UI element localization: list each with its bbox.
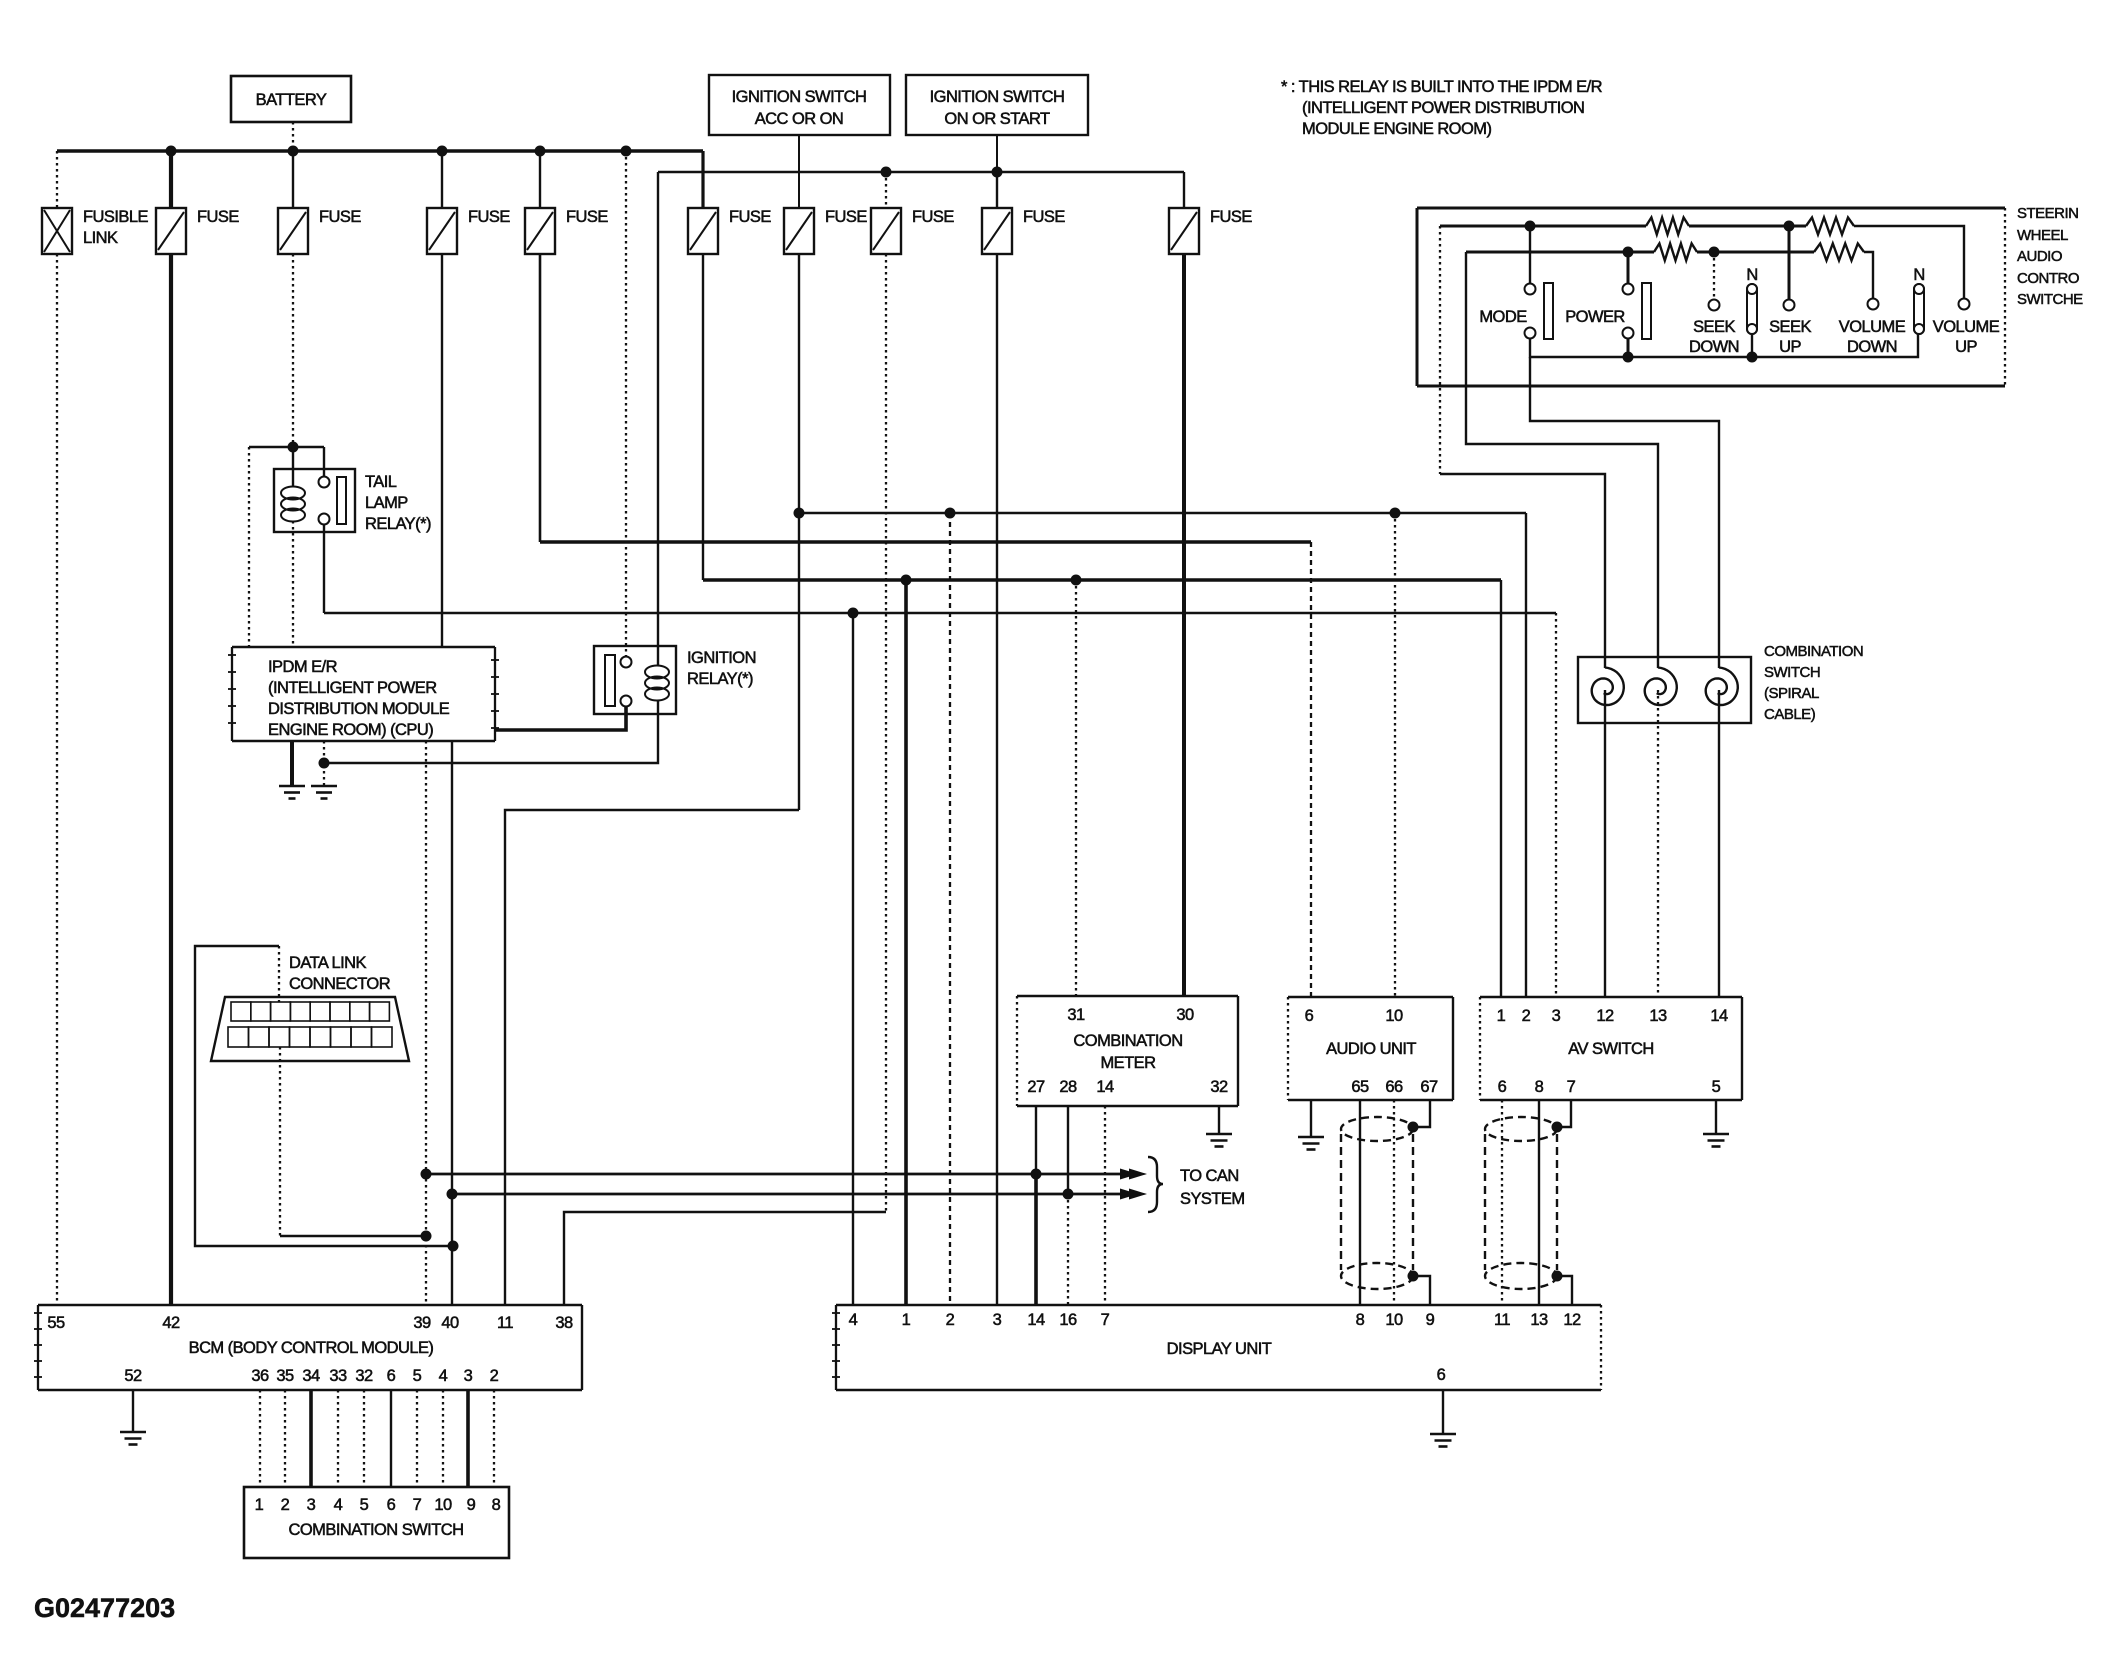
- wire bus to fusible link: [56, 151, 58, 208]
- wire meter 32 ground stem: [1218, 1106, 1220, 1134]
- svg-text:6: 6: [1437, 1366, 1446, 1384]
- wire fuse F1 to BCM pin 42: [169, 254, 173, 1305]
- wire meter 27 to CAN1: [1035, 1106, 1037, 1174]
- wire drop to audio pin 6 (dashed): [1310, 542, 1312, 997]
- svg-text:ON OR START: ON OR START: [944, 110, 1050, 128]
- svg-text:TO CAN: TO CAN: [1180, 1167, 1239, 1185]
- wire ignition bus to fuse F8: [996, 172, 998, 208]
- svg-text:13: 13: [1649, 1007, 1667, 1025]
- svg-text:14: 14: [1027, 1311, 1045, 1329]
- switch VOLUME UP: [1933, 299, 2000, 357]
- svg-text:BCM (BODY CONTROL MODULE): BCM (BODY CONTROL MODULE): [189, 1339, 434, 1357]
- svg-text:10: 10: [1385, 1007, 1403, 1025]
- AV switch box: [1480, 997, 1742, 1100]
- svg-text:2: 2: [281, 1496, 290, 1514]
- wire AV 5 ground stem: [1715, 1100, 1717, 1134]
- svg-text:IGNITION SWITCH: IGNITION SWITCH: [732, 88, 867, 106]
- fuse F9: [1169, 208, 1252, 254]
- wire row2 middle: [1697, 251, 1814, 254]
- wire ignition bus corner into fuse F9: [1183, 172, 1185, 208]
- svg-text:33: 33: [329, 1367, 347, 1385]
- svg-text:FUSE: FUSE: [912, 208, 954, 226]
- wire display 14 riser: [1034, 1174, 1038, 1305]
- battery B1: [231, 76, 351, 122]
- wire BCM ground stem: [132, 1390, 134, 1432]
- svg-text:DISTRIBUTION MODULE: DISTRIBUTION MODULE: [268, 700, 450, 718]
- wire AV 8 to display 13: [1538, 1100, 1540, 1305]
- switch N 2: [1913, 266, 1924, 334]
- wire CAN line 2: [452, 1193, 1132, 1196]
- wire audio 66 to display 10 (dotted): [1393, 1100, 1395, 1305]
- ground audio: [1298, 1137, 1324, 1150]
- svg-text:N: N: [1913, 266, 1924, 284]
- junction tail rail to display pin 4: [848, 608, 859, 619]
- svg-text:38: 38: [555, 1314, 573, 1332]
- svg-text:4: 4: [334, 1496, 343, 1514]
- wire BCM6-6: [390, 1390, 392, 1487]
- svg-text:FUSE: FUSE: [468, 208, 510, 226]
- svg-text:14: 14: [1096, 1078, 1114, 1096]
- junction ACC rail to display 2: [945, 508, 956, 519]
- wire display 16 riser (dotted): [1067, 1194, 1069, 1305]
- svg-text:2: 2: [1522, 1007, 1531, 1025]
- svg-text:12: 12: [1596, 1007, 1614, 1025]
- svg-text:14: 14: [1710, 1007, 1728, 1025]
- svg-text:FUSE: FUSE: [197, 208, 239, 226]
- wire row1 right to volume up: [1854, 226, 1964, 298]
- wire row2 right to volume down: [1864, 252, 1873, 298]
- switch SEEK DOWN: [1689, 300, 1739, 357]
- svg-text:1: 1: [255, 1496, 264, 1514]
- junction rail2 to meter 31: [1071, 575, 1082, 586]
- wire spiral2 to AV pin 13 (dotted): [1657, 690, 1659, 997]
- svg-text:10: 10: [434, 1496, 452, 1514]
- svg-text:52: 52: [124, 1367, 142, 1385]
- wire AV 7 to shield2: [1557, 1100, 1571, 1127]
- wire BCM36-1: [259, 1390, 261, 1487]
- wire relay feed horizontal: [249, 446, 324, 448]
- svg-text:SYSTEM: SYSTEM: [1180, 1190, 1245, 1208]
- svg-text:FUSE: FUSE: [1210, 208, 1252, 226]
- wire BCM2-8: [493, 1390, 495, 1487]
- svg-text:42: 42: [162, 1314, 180, 1332]
- fusible link FL: [42, 208, 148, 254]
- wire feed to relay contact: [323, 447, 325, 477]
- svg-text:TAIL: TAIL: [365, 473, 397, 491]
- svg-text:3: 3: [464, 1367, 473, 1385]
- wire battery bus: [57, 149, 703, 153]
- svg-text:FUSE: FUSE: [1023, 208, 1065, 226]
- ground BCM: [120, 1432, 146, 1445]
- wire power bottom: [1627, 338, 1630, 357]
- wire relay coil to IPDM (dotted): [292, 521, 294, 647]
- junction bus dot 4: [535, 146, 546, 157]
- svg-text:36: 36: [251, 1367, 269, 1385]
- combination switch spiral cable box: [1578, 643, 1863, 723]
- tail lamp relay K1: [274, 469, 431, 533]
- ignition switch ACC box: [709, 75, 890, 135]
- label TO CAN SYSTEM: [1180, 1167, 1245, 1208]
- svg-text:AV SWITCH: AV SWITCH: [1568, 1040, 1654, 1058]
- wire audio ground stem: [1310, 1100, 1312, 1137]
- svg-text:COMBINATION SWITCH: COMBINATION SWITCH: [289, 1521, 464, 1539]
- wire BCM3-9: [466, 1390, 470, 1487]
- svg-text:55: 55: [47, 1314, 65, 1332]
- svg-text:3: 3: [307, 1496, 316, 1514]
- ground AV: [1703, 1134, 1729, 1147]
- svg-text:MODE: MODE: [1479, 308, 1527, 326]
- svg-text:RELAY(*): RELAY(*): [365, 515, 431, 533]
- svg-text:AUDIO UNIT: AUDIO UNIT: [1326, 1040, 1416, 1058]
- wire display ground stem: [1442, 1390, 1444, 1434]
- svg-text:8: 8: [492, 1496, 501, 1514]
- junction rail2 to display 1: [901, 575, 912, 586]
- wire tail rail: [324, 612, 1556, 614]
- junction DLC bottom to CAN-L: [421, 1231, 432, 1242]
- fuse F1: [156, 208, 239, 254]
- svg-text:9: 9: [467, 1496, 476, 1514]
- fuse F3: [427, 208, 510, 254]
- wire ACC rail drop to AV pin 2: [1525, 513, 1527, 997]
- svg-text:30: 30: [1176, 1006, 1194, 1024]
- ground display: [1430, 1434, 1456, 1447]
- wire steering out 3: [1530, 357, 1719, 668]
- wire fuse F4 down to battery rail: [539, 254, 542, 542]
- svg-text:FUSE: FUSE: [729, 208, 771, 226]
- junction CAN2 at BCM40 riser: [447, 1189, 458, 1200]
- IPDM E/R module: [228, 647, 499, 741]
- svg-text:AUDIO: AUDIO: [2017, 248, 2062, 265]
- svg-text:12: 12: [1563, 1311, 1581, 1329]
- junction ignition bus dot A: [881, 167, 892, 178]
- wire rail2 drop to AV pin 1: [1500, 580, 1502, 997]
- svg-text:40: 40: [441, 1314, 459, 1332]
- spiral contact 2: [1645, 668, 1677, 706]
- resistor R4: [1814, 244, 1864, 261]
- wire relay coil return: [324, 700, 658, 763]
- wire spiral3 to AV pin 14: [1718, 690, 1720, 997]
- svg-text:6: 6: [387, 1496, 396, 1514]
- arrow CAN2: [1120, 1189, 1147, 1200]
- arrow CAN1: [1120, 1169, 1147, 1180]
- svg-text:3: 3: [993, 1311, 1002, 1329]
- wire ignition bus to relay coil: [657, 172, 659, 665]
- svg-text:31: 31: [1067, 1006, 1085, 1024]
- wire fuse F5 down to rail2: [702, 254, 704, 580]
- svg-text:9: 9: [1426, 1311, 1435, 1329]
- svg-text:POWER: POWER: [1565, 308, 1625, 326]
- junction common bus power: [1623, 352, 1634, 363]
- wire bus to fuse F3: [441, 151, 443, 208]
- ignition relay K2: [594, 646, 756, 714]
- wire fuse F9 to combination meter pin 30: [1182, 254, 1186, 996]
- junction shield1 top: [1408, 1122, 1419, 1133]
- svg-text:IPDM E/R: IPDM E/R: [268, 658, 338, 676]
- wire bus to fuse F4: [539, 151, 541, 208]
- svg-text:IGNITION: IGNITION: [687, 649, 756, 667]
- wire meter 28 to CAN2: [1067, 1106, 1069, 1194]
- wire switch row1: [1440, 225, 1646, 228]
- wire spiral1 to AV pin 12: [1604, 690, 1606, 997]
- svg-text:65: 65: [1351, 1078, 1369, 1096]
- resistor R3: [1654, 244, 1697, 261]
- svg-text:LAMP: LAMP: [365, 494, 408, 512]
- svg-text:DOWN: DOWN: [1847, 338, 1897, 356]
- junction CAN1 at BCM39 riser: [421, 1169, 432, 1180]
- wire feed to IPDM (left dotted): [248, 447, 250, 647]
- wire battery rail 2 (fuse F5): [703, 578, 1501, 582]
- svg-text:MODULE ENGINE ROOM): MODULE ENGINE ROOM): [1302, 120, 1491, 138]
- svg-text:2: 2: [946, 1311, 955, 1329]
- svg-text:SWITCH: SWITCH: [1764, 664, 1820, 681]
- switch N 1: [1746, 266, 1757, 334]
- wire switch common bus: [1530, 334, 1918, 357]
- wire to audio pin 10 (dotted): [1394, 513, 1396, 997]
- wire shield2 to display 12: [1557, 1276, 1572, 1305]
- fuse F4: [525, 208, 608, 254]
- svg-text:* : THIS RELAY IS BUILT INTO T: * : THIS RELAY IS BUILT INTO THE IPDM E/…: [1281, 78, 1603, 96]
- wire AV 6 to display 11 (dotted): [1501, 1100, 1503, 1305]
- svg-text:CONTRO: CONTRO: [2017, 270, 2079, 287]
- switch MODE: [1479, 283, 1553, 339]
- svg-text:CONNECTOR: CONNECTOR: [289, 975, 391, 993]
- junction shield2 top: [1552, 1122, 1563, 1133]
- junction shield1 bottom: [1408, 1271, 1419, 1282]
- spiral contact 1: [1592, 668, 1624, 706]
- svg-text:N: N: [1746, 266, 1757, 284]
- junction bus dot 1: [166, 146, 177, 157]
- wire seek down riser (dotted): [1713, 252, 1715, 299]
- wire to display pin 4: [852, 613, 854, 1305]
- wire CAN-L from IPDM (dotted) to BCM pin 39: [425, 741, 427, 1305]
- svg-text:UP: UP: [1955, 338, 1977, 356]
- combination meter box: [1017, 996, 1238, 1106]
- svg-text:METER: METER: [1100, 1054, 1156, 1072]
- junction row2 seek down: [1709, 247, 1720, 258]
- wire N1 to common bus: [1751, 334, 1753, 357]
- ground IPDM 1: [279, 786, 305, 799]
- wire ACC switch stem: [798, 135, 800, 208]
- junction DLC top to CAN-H: [448, 1241, 459, 1252]
- svg-text:FUSIBLE: FUSIBLE: [83, 208, 148, 226]
- ignition switch ON/START box: [906, 75, 1088, 135]
- wire BCM35-2: [284, 1390, 286, 1487]
- combination switch box: [244, 1487, 509, 1558]
- svg-text:11: 11: [1494, 1311, 1510, 1329]
- display unit box: [832, 1305, 1601, 1390]
- svg-text:32: 32: [355, 1367, 373, 1385]
- svg-text:66: 66: [1385, 1078, 1403, 1096]
- fuse F8: [982, 208, 1065, 254]
- wire fuse F3 to IPDM: [441, 254, 443, 647]
- wire audio 65 to display 8: [1359, 1100, 1361, 1305]
- wire IPDM ground 2 (with relay coil return): [323, 741, 325, 786]
- wire fuse F2 to tail lamp relay node: [292, 254, 294, 447]
- junction row2 power: [1623, 247, 1634, 258]
- wire BCM32-5: [363, 1390, 365, 1487]
- wire power switch riser: [1627, 252, 1630, 283]
- note asterisk text: [1281, 78, 1603, 138]
- svg-text:(SPIRAL: (SPIRAL: [1764, 685, 1819, 702]
- wire DLC bottom pin (dotted): [279, 1047, 281, 1236]
- wire ON/START switch stem: [996, 135, 998, 172]
- wire jog to BCM pin 38: [564, 1212, 886, 1305]
- wire BCM33-4: [337, 1390, 339, 1487]
- svg-text:2: 2: [490, 1367, 499, 1385]
- wire battery bus to ignition relay contact (dotted): [625, 151, 627, 657]
- svg-text:IGNITION SWITCH: IGNITION SWITCH: [930, 88, 1065, 106]
- svg-text:(INTELLIGENT POWER DISTRIBUTIO: (INTELLIGENT POWER DISTRIBUTION: [1302, 99, 1584, 117]
- fuse F2: [278, 208, 361, 254]
- wire fusible link to BCM pin 55: [56, 254, 58, 1305]
- svg-text:DATA LINK: DATA LINK: [289, 954, 367, 972]
- svg-text:G02477203: G02477203: [34, 1593, 175, 1623]
- svg-text:UP: UP: [1779, 338, 1801, 356]
- svg-text:BATTERY: BATTERY: [256, 91, 327, 109]
- fuse F7: [871, 208, 954, 254]
- audio unit box: [1288, 997, 1453, 1100]
- wire seek up riser: [1788, 226, 1791, 299]
- svg-text:CABLE): CABLE): [1764, 706, 1816, 723]
- wire feed to relay coil: [292, 447, 294, 487]
- svg-text:5: 5: [413, 1367, 422, 1385]
- junction row1 mode: [1525, 221, 1536, 232]
- wire to display pin 1: [904, 580, 908, 1305]
- svg-text:4: 4: [439, 1367, 448, 1385]
- svg-text:ENGINE ROOM) (CPU): ENGINE ROOM) (CPU): [268, 721, 433, 739]
- svg-text:5: 5: [1712, 1078, 1721, 1096]
- spiral contact 3: [1706, 668, 1738, 706]
- wire tail rail drop to AV pin 3 (dotted): [1555, 613, 1557, 997]
- wire ignition bus to fuse F7: [885, 172, 887, 208]
- fuse F5: [688, 208, 771, 254]
- svg-text:STEERIN: STEERIN: [2017, 205, 2079, 222]
- wire to display pin 2 (dashed): [949, 513, 951, 1305]
- svg-text:39: 39: [413, 1314, 431, 1332]
- junction bus dot 5: [621, 146, 632, 157]
- svg-text:10: 10: [1385, 1311, 1403, 1329]
- svg-text:7: 7: [413, 1496, 422, 1514]
- wire bus corner into fuse F5: [701, 151, 704, 208]
- switch SEEK UP: [1769, 300, 1811, 357]
- wire bus to fuse F1: [169, 151, 173, 208]
- resistor R2: [1806, 218, 1854, 235]
- wire steering out 1 bend to spiral 1: [1440, 474, 1605, 668]
- svg-text:35: 35: [276, 1367, 294, 1385]
- svg-text:3: 3: [1552, 1007, 1561, 1025]
- svg-text:FUSE: FUSE: [825, 208, 867, 226]
- brace TO CAN: [1148, 1157, 1163, 1212]
- wire fuse F6 to ACC rail junction: [798, 254, 800, 810]
- svg-text:VOLUME: VOLUME: [1933, 318, 2000, 336]
- svg-text:SEEK: SEEK: [1693, 318, 1735, 336]
- junction ACC rail to audio 10: [1390, 508, 1401, 519]
- wire meter 14 to display 7 (dotted): [1104, 1106, 1106, 1305]
- svg-text:VOLUME: VOLUME: [1839, 318, 1906, 336]
- wire bus to fuse F2: [292, 151, 294, 208]
- data link connector DLC: [211, 954, 409, 1061]
- wire CAN-H from IPDM to BCM pin 40: [451, 741, 453, 1305]
- wire fuse F8 to display pin 3: [996, 254, 998, 1305]
- wire BCM5-7: [416, 1390, 418, 1487]
- resistor R1: [1646, 218, 1689, 235]
- wire fuse F7 down (dotted) to BCM 38 jog: [885, 254, 887, 1212]
- wire row1 middle: [1689, 225, 1806, 228]
- svg-text:32: 32: [1210, 1078, 1228, 1096]
- svg-text:1: 1: [902, 1311, 911, 1329]
- switch POWER: [1565, 283, 1651, 339]
- wire BCM34-3: [309, 1390, 313, 1487]
- svg-text:FUSE: FUSE: [319, 208, 361, 226]
- junction common bus N1: [1747, 352, 1758, 363]
- ground IPDM 2: [311, 786, 337, 799]
- svg-text:SEEK: SEEK: [1769, 318, 1811, 336]
- svg-text:13: 13: [1530, 1311, 1548, 1329]
- wire mode switch riser: [1529, 226, 1531, 283]
- wire ACC rail: [799, 512, 1526, 514]
- wire shield1 to display 9: [1413, 1276, 1430, 1305]
- steering wheel audio control switches box: [1417, 205, 2083, 386]
- svg-text:(INTELLIGENT POWER: (INTELLIGENT POWER: [268, 679, 437, 697]
- svg-text:DOWN: DOWN: [1689, 338, 1739, 356]
- BCM body control module box: [34, 1305, 582, 1390]
- ground meter: [1206, 1134, 1232, 1147]
- svg-text:6: 6: [1498, 1078, 1507, 1096]
- svg-text:FUSE: FUSE: [566, 208, 608, 226]
- svg-text:DISPLAY UNIT: DISPLAY UNIT: [1167, 1340, 1272, 1358]
- wire audio 67 to shield1: [1413, 1100, 1430, 1127]
- wire row2: [1466, 251, 1654, 254]
- svg-text:4: 4: [849, 1311, 858, 1329]
- svg-text:27: 27: [1027, 1078, 1045, 1096]
- svg-text:6: 6: [1305, 1007, 1314, 1025]
- junction bus dot 3: [437, 146, 448, 157]
- junction ACC rail at fuse F6: [794, 508, 805, 519]
- fuse F6: [784, 208, 867, 254]
- junction bus dot 2: [288, 146, 299, 157]
- junction coil return: [319, 758, 330, 769]
- svg-text:LINK: LINK: [83, 229, 118, 247]
- svg-text:5: 5: [360, 1496, 369, 1514]
- junction CAN2 meter28/display16: [1063, 1189, 1074, 1200]
- wire DLC bottom to CAN-L: [280, 1235, 426, 1237]
- svg-text:7: 7: [1101, 1311, 1110, 1329]
- svg-text:67: 67: [1420, 1078, 1438, 1096]
- shield S1 (shielded cable audio): [1341, 1117, 1413, 1289]
- svg-text:7: 7: [1567, 1078, 1576, 1096]
- junction row1 seek up: [1784, 221, 1795, 232]
- svg-text:28: 28: [1059, 1078, 1077, 1096]
- svg-text:6: 6: [387, 1367, 396, 1385]
- svg-text:COMBINATION: COMBINATION: [1764, 643, 1863, 660]
- wire battery stem: [292, 122, 294, 151]
- wire ignition bus: [658, 171, 1184, 173]
- wire DLC top detour: [195, 946, 453, 1246]
- svg-text:34: 34: [302, 1367, 320, 1385]
- wire DLC top pin (dotted): [278, 946, 280, 1002]
- wire BCM4-10: [442, 1390, 444, 1487]
- switch VOLUME DOWN: [1839, 299, 1906, 357]
- shield S2 (shielded cable AV): [1485, 1117, 1557, 1289]
- wire battery rail (fuse F4): [540, 540, 1311, 544]
- wire IPDM to ignition relay contact: [495, 706, 626, 730]
- wire CAN line 1: [426, 1173, 1132, 1176]
- svg-text:16: 16: [1059, 1311, 1077, 1329]
- wire to meter pin 31 (dotted): [1075, 580, 1077, 996]
- svg-text:8: 8: [1356, 1311, 1365, 1329]
- svg-text:SWITCHE: SWITCHE: [2017, 291, 2083, 308]
- junction shield2 bottom: [1552, 1271, 1563, 1282]
